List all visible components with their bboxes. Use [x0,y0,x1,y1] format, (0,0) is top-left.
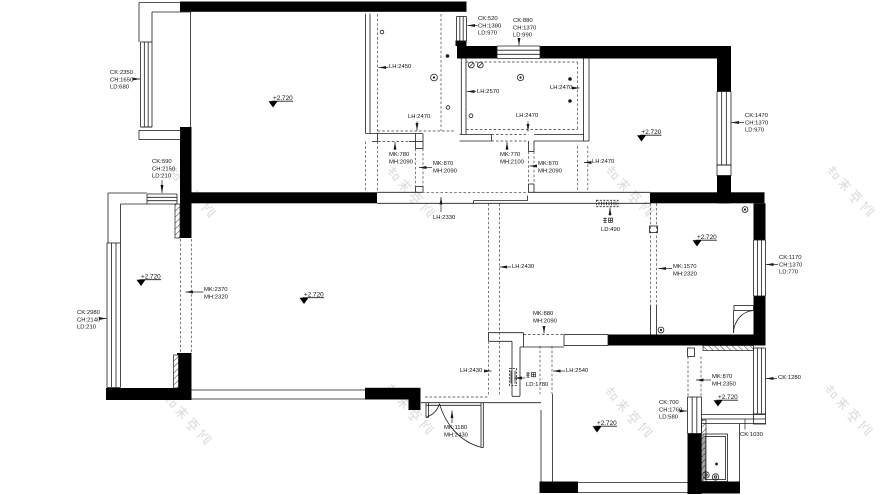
svg-text:MH:2100: MH:2100 [500,159,525,165]
svg-text:CH:1370: CH:1370 [745,120,769,126]
svg-text:CK:2350: CK:2350 [110,70,134,76]
svg-text:MH:2350: MH:2350 [712,381,737,387]
svg-text:MH:2090: MH:2090 [433,168,458,174]
svg-text:CK:700: CK:700 [659,400,679,406]
svg-text:MH:2090: MH:2090 [538,168,563,174]
svg-text:CH:2140: CH:2140 [77,317,101,323]
svg-text:CK:1030: CK:1030 [740,432,764,438]
svg-text:CK:2980: CK:2980 [77,310,101,316]
svg-text:LH:2430: LH:2430 [460,368,483,374]
svg-text:LH:2540: LH:2540 [566,368,589,374]
svg-text:MK:770: MK:770 [500,152,521,158]
svg-text:LH:2470: LH:2470 [592,159,615,165]
svg-text:LD:970: LD:970 [478,31,498,37]
svg-text:CH:1650: CH:1650 [110,77,134,83]
svg-text:MK:780: MK:780 [389,152,410,158]
svg-text:LH:2470: LH:2470 [550,85,573,91]
svg-text:CK:1470: CK:1470 [745,113,769,119]
svg-text:CH:1760: CH:1760 [659,407,683,413]
svg-text:LH:2470: LH:2470 [408,114,431,120]
svg-text:LD:580: LD:580 [659,415,679,421]
svg-text:CH:1370: CH:1370 [779,262,803,268]
svg-text:MK:880: MK:880 [533,311,554,317]
svg-text:CH:1380: CH:1380 [478,23,502,29]
svg-text:CK:1280: CK:1280 [778,375,802,381]
svg-text:CH:2150: CH:2150 [152,166,176,172]
svg-text:CK:880: CK:880 [513,18,533,24]
svg-text:LD:210: LD:210 [77,325,97,331]
svg-text:LH:2470: LH:2470 [516,113,539,119]
svg-text:LH:2450: LH:2450 [389,64,412,70]
svg-text:MK:1180: MK:1180 [444,425,468,431]
svg-text:MH:2090: MH:2090 [389,159,414,165]
svg-text:MH:2090: MH:2090 [533,318,558,324]
svg-text:MH:2320: MH:2320 [204,294,229,300]
svg-text:CK:1170: CK:1170 [779,255,802,261]
svg-text:LH:2570: LH:2570 [477,89,500,95]
svg-text:MK:870: MK:870 [538,161,559,167]
svg-text:LD:770: LD:770 [779,270,799,276]
svg-text:MK:870: MK:870 [712,374,733,380]
svg-text:LH:2430: LH:2430 [512,264,535,270]
svg-text:CK:590: CK:590 [152,159,172,165]
svg-text:LD:210: LD:210 [152,174,172,180]
svg-text:CK:520: CK:520 [478,16,498,22]
svg-text:CH:1370: CH:1370 [513,25,537,31]
svg-text:LD:990: LD:990 [513,33,533,39]
svg-text:LH:2330: LH:2330 [433,215,456,221]
svg-text:MK:2370: MK:2370 [204,287,228,293]
svg-text:MH:2430: MH:2430 [444,432,469,438]
svg-text:LD:680: LD:680 [110,85,130,91]
svg-text:MH:2320: MH:2320 [673,271,698,277]
svg-text:LD:1780: LD:1780 [526,382,549,388]
svg-text:MK:870: MK:870 [433,161,454,167]
svg-text:LD:970: LD:970 [745,128,765,134]
svg-text:LD:490: LD:490 [601,227,621,233]
svg-text:MK:1570: MK:1570 [673,264,697,270]
